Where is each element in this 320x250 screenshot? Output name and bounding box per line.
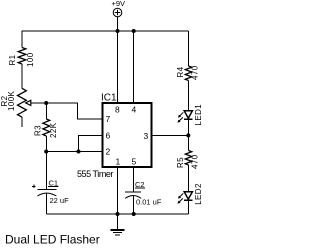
wire R4 to LED1: [188, 81, 190, 111]
svg-text:100: 100: [26, 52, 35, 67]
svg-text:8: 8: [115, 105, 120, 115]
potentiometer R2: [18, 88, 27, 117]
LED2: [178, 192, 193, 204]
ground: [111, 214, 125, 235]
wire LED2 to ground bus: [188, 200, 190, 214]
svg-text:22 uF: 22 uF: [50, 196, 70, 205]
op-amp U1: IC box 555: [103, 103, 152, 167]
svg-text:555 Timer: 555 Timer: [77, 169, 113, 179]
C1 polarity plus: [32, 185, 35, 188]
svg-text:1: 1: [116, 157, 121, 167]
wire branch to pin 6: [79, 135, 102, 151]
resistor R5: [185, 151, 191, 166]
wire pin 8: [117, 31, 119, 103]
svg-text:LED2: LED2: [194, 183, 202, 205]
node: junction dot top bus pin 4: [132, 29, 136, 33]
svg-text:0.01 uF: 0.01 uF: [136, 198, 162, 207]
label C1 underline: [48, 186, 58, 188]
svg-text:100K: 100K: [7, 90, 16, 111]
wire: top supply bus: [22, 31, 189, 48]
svg-text:22K: 22K: [49, 122, 58, 138]
wire node B to pin 2: [46, 151, 101, 153]
svg-text:LED1: LED1: [194, 104, 202, 126]
wire node A to R3: [45, 103, 47, 119]
svg-text:4: 4: [132, 105, 137, 115]
node C: pin3/LED1/R5 junction: [186, 133, 190, 137]
svg-text:R1: R1: [8, 54, 17, 65]
label C2 underline: [135, 187, 145, 189]
svg-text:IC1: IC1: [101, 93, 117, 104]
svg-text:7: 7: [106, 114, 111, 124]
wire R2 bottom tail: [21, 117, 23, 127]
resistor R4: [185, 66, 191, 81]
svg-text:C1: C1: [49, 179, 59, 188]
svg-text:5: 5: [132, 157, 137, 167]
svg-text:C2: C2: [135, 180, 145, 189]
svg-text:Dual LED Flasher: Dual LED Flasher: [5, 233, 100, 247]
node B: R3/C1 junction: [44, 150, 48, 154]
wire LED1 to node C: [188, 119, 190, 135]
wire pin 5 to C2: [133, 167, 135, 192]
capacitor C1: [37, 189, 56, 214]
svg-text:R3: R3: [34, 125, 43, 136]
node: junction dot pin6 branch: [77, 150, 81, 154]
node: junction dot top bus pin 8: [116, 29, 120, 33]
wire ground bus: [46, 213, 188, 215]
wire R1 to R2: [21, 64, 23, 89]
svg-text:3: 3: [144, 131, 149, 141]
node: junction dot bus C2: [132, 212, 136, 216]
capacitor C2: [125, 192, 141, 214]
svg-text:470: 470: [191, 154, 200, 169]
LED1: [178, 111, 193, 123]
wire node C to R5: [188, 135, 190, 150]
resistor R3: [43, 119, 50, 136]
wire pin 4: [133, 31, 135, 103]
svg-text:R5: R5: [176, 157, 185, 168]
wire node B to C1: [45, 152, 47, 190]
resistor R1: [18, 48, 26, 65]
+9V power symbol: [113, 8, 122, 17]
wire pin 3: [152, 134, 189, 136]
svg-text:470: 470: [191, 65, 200, 80]
wire pin 1 to ground bus: [117, 167, 119, 214]
svg-text:R4: R4: [176, 66, 185, 77]
R2 wiper arrow: [26, 100, 47, 105]
wire top bus to R4: [188, 31, 190, 66]
svg-text:6: 6: [106, 131, 111, 141]
node A: wiper junction: [44, 101, 48, 105]
wire: +9V stem: [117, 17, 119, 31]
svg-text:2: 2: [106, 147, 111, 157]
wire R3 to node B: [45, 136, 47, 152]
wire R5 to LED2: [188, 165, 190, 192]
wire node A to pin 7: [46, 103, 101, 119]
node: junction dot bus pin1: [116, 212, 120, 216]
svg-text:+9V: +9V: [112, 0, 126, 8]
